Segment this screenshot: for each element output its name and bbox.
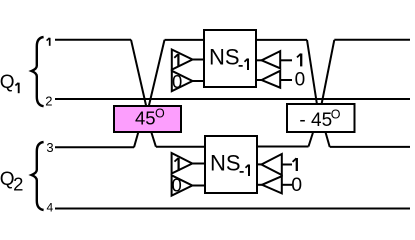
wire mode-4	[55, 208, 410, 210]
wire NS-B output diagonal up into BS2 bottom	[309, 132, 314, 147]
svg-text:4: 4	[47, 200, 54, 214]
op NS-B gate box (NS-1 bottom)	[205, 136, 257, 193]
wire into NS-A	[165, 39, 207, 41]
svg-text:NS: NS	[209, 45, 240, 70]
svg-text:Q: Q	[0, 72, 14, 93]
detector D0B triangle	[262, 176, 282, 193]
label detector-1B value 1	[293, 158, 297, 171]
svg-text:2: 2	[13, 174, 23, 195]
wire BS1 top-right diagonal up to NS-A input	[149, 40, 165, 107]
svg-text:45: 45	[135, 107, 156, 128]
wire NS-B output	[254, 146, 309, 148]
wire NS-A output diagonal into BS2	[307, 40, 317, 105]
svg-text:0: 0	[295, 70, 306, 91]
svg-text:NS: NS	[210, 151, 241, 176]
svg-text:0: 0	[172, 175, 182, 196]
label ancilla-1B value 1	[175, 158, 179, 171]
op NS-A gate box (NS-1 top)	[204, 30, 256, 87]
wire detector-1B readout	[282, 164, 292, 166]
brace qubit Q1	[32, 37, 44, 106]
svg-text:O: O	[155, 106, 165, 120]
wire BS1 bottom-right diagonal down to NS-B input	[151, 132, 156, 147]
wire BS2 top-right diagonal up to mode-1	[322, 40, 335, 105]
svg-text:3: 3	[46, 140, 53, 155]
wire NS-A output	[254, 39, 307, 41]
wire into NS-B	[156, 146, 207, 148]
source ancilla-0B triangle	[172, 175, 193, 195]
label mode 1	[47, 38, 50, 46]
wire NS-A to detector-0A	[255, 79, 262, 81]
source ancilla-0A triangle	[172, 71, 193, 91]
svg-text:- 45: - 45	[299, 110, 332, 131]
wire NS-A to detector-1A	[255, 59, 262, 61]
wire ancilla-0A to NS-A	[193, 80, 206, 82]
wire BS2 bottom-right diagonal down to mode-3	[325, 132, 329, 147]
wire detector-0B readout	[282, 184, 292, 186]
wire mode-2	[55, 98, 410, 100]
source ancilla-1B triangle	[172, 153, 193, 174]
wire NS-B to detector-1B	[256, 163, 262, 165]
wire detector-1A readout	[280, 59, 292, 61]
wire ancilla-1A to NS-A	[193, 59, 206, 61]
wire mode-3 left segment	[55, 146, 134, 148]
wire ancilla-0B to NS-B	[192, 185, 206, 187]
wire NS-B to detector-0B	[256, 184, 262, 186]
svg-text:2: 2	[45, 93, 52, 108]
wire mode-1 diagonal into BS1	[131, 40, 146, 107]
beam-splitter BS2 -45deg box	[287, 104, 355, 132]
wire mode-3 diagonal up into BS1 bottom	[134, 132, 139, 148]
svg-text:0: 0	[291, 174, 302, 196]
label detector-1A value 1	[297, 54, 301, 67]
svg-text:0: 0	[172, 71, 182, 92]
brace qubit Q2	[32, 142, 44, 210]
wire mode-1 right segment	[334, 39, 410, 41]
wire mode-3 right segment	[330, 146, 410, 148]
label ancilla-1A value 1	[174, 54, 178, 67]
wire ancilla-1B to NS-B	[192, 163, 206, 165]
detector D1A triangle	[262, 51, 281, 68]
beam-splitter BS1 45deg box	[114, 106, 181, 132]
source ancilla-1A triangle	[172, 50, 193, 70]
detector D1B triangle	[261, 154, 281, 175]
detector D0A triangle	[262, 71, 281, 88]
svg-text:O: O	[331, 108, 341, 122]
wire detector-0A readout	[280, 79, 292, 81]
wire mode-1 left segment	[55, 39, 131, 41]
